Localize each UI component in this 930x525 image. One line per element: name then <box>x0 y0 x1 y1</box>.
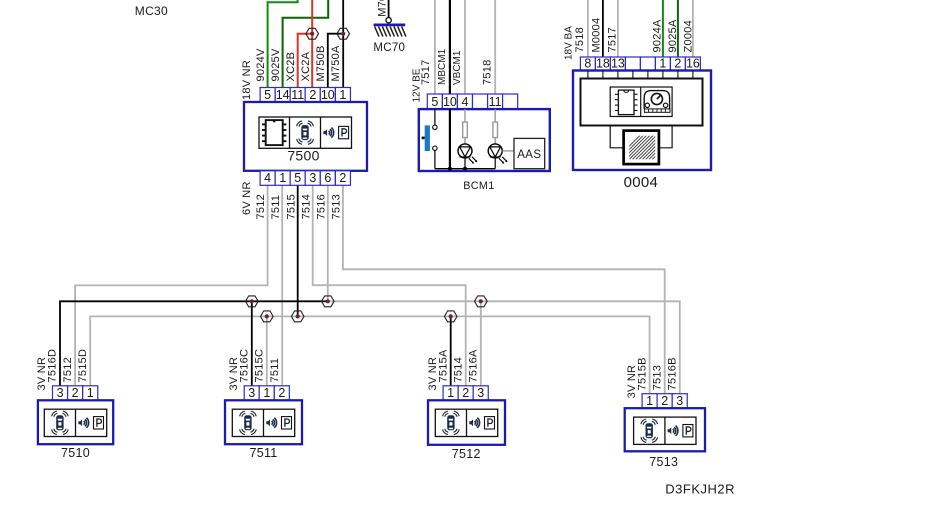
resistor R2 in BCM1 <box>493 109 498 144</box>
resistor R1 in BCM1 <box>463 109 468 144</box>
wire Z0004 to 0004 pin 16 <box>692 0 694 57</box>
svg-text:1: 1 <box>87 386 94 400</box>
icon strip 7500 <box>259 117 352 148</box>
label wire M750A <box>330 45 342 82</box>
wire LED D2 to AAS <box>502 150 514 152</box>
svg-text:2: 2 <box>674 56 681 70</box>
splice node XC2 on wire XC2A <box>306 28 319 39</box>
svg-text:10: 10 <box>443 95 457 109</box>
label wire 7516 <box>315 194 327 219</box>
label wire 9024V <box>255 48 267 81</box>
svg-text:3: 3 <box>477 386 484 400</box>
label wire 7518 0004 <box>574 27 586 52</box>
svg-text:7516A: 7516A <box>468 349 480 382</box>
label 7500 <box>287 148 319 164</box>
label 6V NR <box>241 181 253 215</box>
svg-text:2: 2 <box>309 88 316 102</box>
svg-text:BCM1: BCM1 <box>463 180 494 192</box>
icon sound 7511 <box>266 417 291 429</box>
label wire 7511 <box>269 358 281 383</box>
svg-text:16: 16 <box>686 56 700 70</box>
label wire 7515B <box>636 357 648 390</box>
label 7510 <box>61 446 90 460</box>
svg-text:6V NR: 6V NR <box>241 181 253 215</box>
svg-text:7514: 7514 <box>452 357 464 382</box>
splice node 7515A on 7515 bus <box>444 311 457 322</box>
label wire VBCM1 <box>452 50 463 85</box>
wire MBCM1 to BCM1 pin 10 <box>449 0 451 94</box>
wire 7518 to 0004 pin 8 <box>587 0 589 57</box>
svg-text:0004: 0004 <box>624 174 659 191</box>
pin row 7512 <box>443 386 488 401</box>
label wire XC2B <box>285 52 297 82</box>
label wire 7513 <box>651 365 663 390</box>
svg-text:2: 2 <box>72 386 79 400</box>
LED D1 in BCM1 <box>458 144 477 171</box>
wire M750B to 7500 pin 10 <box>328 34 344 88</box>
svg-text:MBCM1: MBCM1 <box>437 48 448 85</box>
label 3V NR 7510 <box>36 357 48 391</box>
svg-text:9024A: 9024A <box>652 19 664 52</box>
label wire 7515D <box>77 349 89 383</box>
svg-text:18: 18 <box>596 56 610 70</box>
svg-text:2: 2 <box>661 394 668 408</box>
wire 7516 bus gray segment to 7516B <box>328 301 680 393</box>
svg-text:7512: 7512 <box>255 194 267 219</box>
svg-text:7516B: 7516B <box>667 357 679 390</box>
sensor 7512 box <box>428 400 505 445</box>
splice node 7516A on 7516 bus <box>475 296 488 307</box>
icon strip 7510 <box>44 409 106 436</box>
svg-text:6: 6 <box>324 171 331 185</box>
wire internal bus BCM1 <box>435 168 495 170</box>
svg-text:9025V: 9025V <box>270 48 282 81</box>
switch in BCM1 <box>422 109 437 169</box>
wire 7516 from 7500 pin 6 to splice <box>327 185 329 301</box>
label wire 7516B <box>667 357 679 390</box>
svg-text:M0004: M0004 <box>591 18 603 53</box>
wire XC2B to 7500 pin 11 <box>298 34 313 88</box>
splice node 7516C on 7516 bus <box>246 296 259 307</box>
svg-text:7512: 7512 <box>62 357 74 382</box>
label wire 7512 <box>255 194 267 219</box>
wire 7515 from 7500 pin 5 to splice <box>297 185 299 316</box>
inner unit box 0004 <box>581 79 703 126</box>
svg-text:11: 11 <box>489 95 502 109</box>
icon car 7512 <box>443 411 460 434</box>
splice node 7515C on 7515 bus <box>261 311 274 322</box>
svg-text:4: 4 <box>462 95 469 109</box>
svg-text:2: 2 <box>339 171 346 185</box>
svg-text:4: 4 <box>264 171 271 185</box>
wire 7516C drop to 7511 pin 3 <box>251 301 253 386</box>
label wire 7515A <box>437 349 449 382</box>
svg-text:7517: 7517 <box>420 60 432 85</box>
wire 9024A to 0004 pin 1 <box>662 0 664 57</box>
wire 7517 to 0004 pin 13 <box>617 0 619 57</box>
icon car 7510 <box>52 411 69 434</box>
label wire M70 <box>376 0 388 17</box>
svg-text:7515C: 7515C <box>254 349 266 383</box>
icon sound 7510 <box>78 417 103 429</box>
wire 7515 bus 7515D to 7515B <box>90 316 649 393</box>
svg-text:7513: 7513 <box>331 194 343 219</box>
AAS box in BCM1 <box>514 138 545 168</box>
wire 7516 bus black segment to 7516D 7510 pin 3 <box>60 301 328 386</box>
display bracket 0004 <box>610 126 672 148</box>
svg-text:7511: 7511 <box>269 358 281 383</box>
svg-text:1: 1 <box>279 171 286 185</box>
icon sound 7500 <box>323 126 348 138</box>
wire 7517 to BCM1 pin 5 <box>434 0 436 94</box>
pin row 7500 top <box>260 88 350 103</box>
svg-text:13: 13 <box>611 56 625 70</box>
label 7513 <box>649 455 678 469</box>
wire 9024V to 7500 pin 5 <box>268 0 298 88</box>
svg-text:XC2B: XC2B <box>285 52 297 82</box>
display screen 0004 <box>603 120 705 172</box>
label 18V NR <box>241 60 253 100</box>
wire 7512 from 7500 pin 4 to 7510 pin 2 <box>75 185 268 385</box>
svg-text:7515: 7515 <box>285 194 297 219</box>
label ground MC30 <box>135 4 168 18</box>
label 0004 <box>624 174 659 191</box>
label wire 7511 <box>270 195 282 220</box>
label BCM1 <box>463 180 494 192</box>
module BCM1 box <box>419 109 550 171</box>
label wire 7513 <box>331 194 343 219</box>
svg-text:Z0004: Z0004 <box>683 20 695 52</box>
wire VBCM1 to BCM1 pin 4 <box>464 0 466 94</box>
label wire 9025A 0004 <box>667 19 679 52</box>
svg-text:7511: 7511 <box>249 446 277 460</box>
icon sound 7513 <box>668 425 693 437</box>
label 12V BE <box>412 68 423 102</box>
label wire 7515 <box>285 194 297 219</box>
icon car 7500 <box>297 121 314 144</box>
label ground MC70 <box>373 42 405 54</box>
pin row BCM1 <box>427 94 517 109</box>
label 3V NR 7513 <box>626 365 638 399</box>
pin row 0004 <box>580 56 700 70</box>
ground MC70 <box>374 18 406 37</box>
pin row 7510 <box>53 386 98 401</box>
svg-text:18V NR: 18V NR <box>241 60 253 100</box>
label wire M750B <box>315 45 327 81</box>
icon sound 7512 <box>469 417 494 429</box>
wire MBCM1 inside BCM1 <box>448 109 452 171</box>
svg-text:M750B: M750B <box>315 45 327 81</box>
svg-text:7512: 7512 <box>452 447 481 461</box>
LED D2 in BCM1 <box>488 144 507 169</box>
label wire Z0004 0004 <box>683 20 695 52</box>
label wire XC2A <box>300 51 312 81</box>
label 7511 <box>249 446 277 460</box>
icon strip 7511 <box>232 409 294 436</box>
label wire 7512 <box>62 357 74 382</box>
svg-text:7516D: 7516D <box>47 349 59 383</box>
svg-text:3: 3 <box>57 386 64 400</box>
svg-text:VBCM1: VBCM1 <box>452 50 463 85</box>
pin ticks 0004 <box>588 71 693 79</box>
splice node M750 on wire M750A <box>337 28 350 39</box>
label wire 9025V <box>270 48 282 81</box>
svg-text:11: 11 <box>291 88 304 102</box>
wire M750A to 7500 pin 1 <box>342 0 344 88</box>
svg-text:1: 1 <box>646 394 653 408</box>
svg-text:D3FKJH2R: D3FKJH2R <box>665 482 735 497</box>
svg-text:5: 5 <box>264 88 271 102</box>
svg-text:2: 2 <box>462 386 469 400</box>
label wire M0004 0004 <box>591 18 603 53</box>
svg-text:8: 8 <box>584 56 591 70</box>
wire 7518 to BCM1 pin 11 <box>494 0 496 94</box>
svg-text:5: 5 <box>294 171 301 185</box>
sensor 7513 box <box>625 408 705 451</box>
wire 7516A drop to 7512 pin 3 <box>480 301 482 386</box>
svg-text:MC30: MC30 <box>135 4 168 18</box>
sensor 7510 box <box>38 400 113 444</box>
svg-text:1: 1 <box>659 56 666 70</box>
svg-text:AAS: AAS <box>517 149 541 161</box>
label wire 7516A <box>468 349 480 382</box>
icon car 7513 <box>641 419 658 442</box>
label wire MBCM1 <box>437 48 448 85</box>
label 3V NR 7511 <box>228 357 240 391</box>
svg-text:7516C: 7516C <box>239 349 251 383</box>
svg-text:7510: 7510 <box>61 446 90 460</box>
svg-text:1: 1 <box>447 386 454 400</box>
svg-text:7515B: 7515B <box>636 357 648 390</box>
svg-text:MC70: MC70 <box>373 42 405 54</box>
label wire 7517 BCM1 <box>420 60 432 85</box>
svg-text:XC2A: XC2A <box>300 51 312 81</box>
icon pair box 0004 <box>610 87 672 117</box>
label diagram code D3FKJH2R <box>665 482 735 497</box>
svg-text:5: 5 <box>431 95 438 109</box>
svg-text:M750A: M750A <box>330 45 342 82</box>
svg-text:7500: 7500 <box>287 148 319 164</box>
svg-text:3: 3 <box>248 386 255 400</box>
label wire 7517 0004 <box>606 27 618 52</box>
wire 7513 from 7500 pin 2 to 7513 pin 2 <box>343 185 665 393</box>
pin row 7500 bottom <box>260 171 350 186</box>
label 18V BA <box>564 26 575 60</box>
label wire 7514 <box>452 357 464 382</box>
svg-text:9025A: 9025A <box>667 19 679 52</box>
wire 7514 from 7500 pin 3 to 7512 pin 2 <box>313 185 466 385</box>
sensor 7511 box <box>225 400 302 444</box>
label wire 7515C <box>254 349 266 383</box>
pin row 7513 <box>642 394 687 409</box>
svg-text:1: 1 <box>263 386 270 400</box>
pin row 7511 <box>244 386 289 401</box>
svg-text:1: 1 <box>339 88 346 102</box>
wire 7515A drop to 7512 pin 1 <box>450 316 452 385</box>
ECU 7500 park assist box <box>244 102 367 171</box>
svg-text:7513: 7513 <box>649 455 678 469</box>
label wire 9024A 0004 <box>652 19 664 52</box>
wire 9025V to 7500 pin 14 <box>283 0 329 88</box>
wire 9025A to 0004 pin 2 <box>677 0 679 57</box>
wire 7511 from 7500 pin 1 to 7511 pin 2 <box>281 185 283 385</box>
svg-text:7516: 7516 <box>315 194 327 219</box>
label wire 7516D <box>47 349 59 383</box>
svg-text:7511: 7511 <box>270 195 282 220</box>
label wire 7518 BCM1 <box>481 60 493 85</box>
instrument cluster 0004 box <box>573 71 711 171</box>
splice node 7515 on 7515 bus <box>291 311 304 322</box>
icon chip 7500 <box>262 120 286 145</box>
wire 7515C drop to 7511 pin 1 <box>266 316 268 385</box>
svg-text:3: 3 <box>676 394 683 408</box>
wire XC2A to 7500 pin 2 <box>311 0 313 88</box>
svg-text:7515A: 7515A <box>437 349 449 382</box>
splice node 7516 on 7516 bus <box>322 296 335 307</box>
svg-text:10: 10 <box>321 88 335 102</box>
label wire 7516C <box>239 349 251 383</box>
svg-text:14: 14 <box>276 88 290 102</box>
icon chip 0004 <box>615 90 638 115</box>
svg-text:7518: 7518 <box>481 60 493 85</box>
svg-text:2: 2 <box>278 386 285 400</box>
label wire 7514 <box>300 194 312 219</box>
svg-text:7517: 7517 <box>606 27 618 52</box>
icon car 7511 <box>240 411 257 434</box>
svg-text:7514: 7514 <box>300 194 312 219</box>
label 3V NR 7512 <box>427 357 439 391</box>
svg-text:7513: 7513 <box>651 365 663 390</box>
svg-text:7515D: 7515D <box>77 349 89 383</box>
label 7512 <box>452 447 481 461</box>
wire M70 to ground MC70 <box>388 0 390 18</box>
svg-text:M70: M70 <box>376 0 388 17</box>
icon strip 7513 <box>634 417 696 444</box>
wire M0004 to 0004 pin 18 <box>602 0 604 57</box>
svg-text:9024V: 9024V <box>255 48 267 81</box>
svg-text:3: 3 <box>309 171 316 185</box>
icon strip 7512 <box>435 409 497 436</box>
svg-text:7518: 7518 <box>574 27 586 52</box>
icon gauge 0004 <box>644 91 670 113</box>
